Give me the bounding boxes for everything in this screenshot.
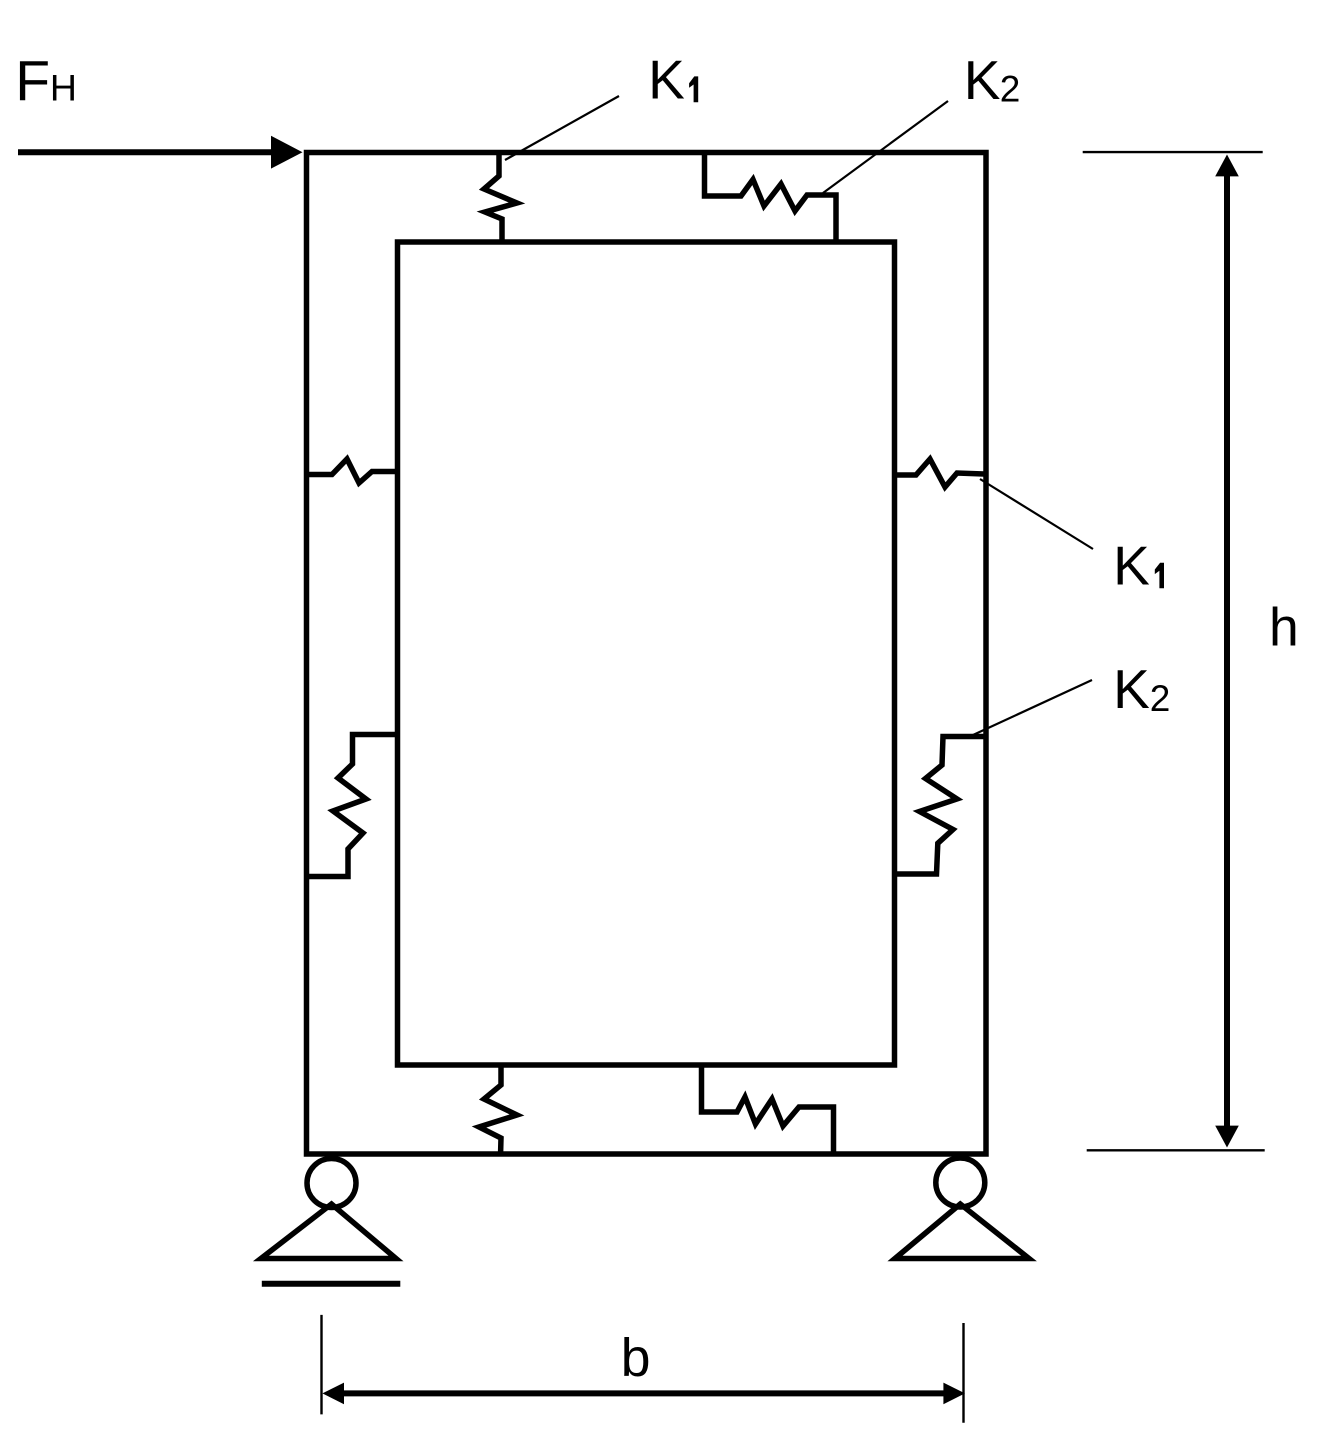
dimension b right tick: [962, 1323, 964, 1423]
force arrow FH: [18, 149, 275, 155]
dimension h bottom extension line: [1087, 1149, 1265, 1151]
pin support left circle: [307, 1159, 356, 1208]
svg-text:2: 2: [1000, 69, 1021, 110]
leader line K2 top: [823, 101, 948, 193]
spring K2 top: [705, 153, 837, 243]
spring K1 bottom: [479, 1064, 517, 1156]
svg-text:h: h: [1269, 599, 1299, 658]
svg-text:K: K: [1113, 658, 1150, 720]
spring right middle K1: [896, 459, 984, 487]
spring K1 top: [484, 153, 517, 243]
dimension b arrow: [335, 1390, 955, 1396]
spring K2 bottom: [702, 1064, 834, 1156]
pin support right circle: [936, 1158, 985, 1207]
dimension b left tick: [320, 1315, 322, 1415]
svg-text:F: F: [15, 50, 50, 114]
spring left lower K2: [307, 735, 396, 877]
inner mass block: [398, 242, 895, 1065]
spring left middle: [308, 459, 396, 483]
leader line K2 right: [973, 680, 1092, 735]
svg-text:2: 2: [1150, 678, 1171, 719]
svg-text:K: K: [964, 49, 1001, 111]
svg-text:H: H: [50, 67, 77, 109]
pin support left triangle: [261, 1204, 396, 1259]
pin support right triangle: [895, 1204, 1029, 1259]
leader line K1 right: [980, 479, 1093, 549]
outer frame: [307, 153, 987, 1155]
dimension h top extension line: [1083, 151, 1263, 153]
dimension h arrow: [1224, 172, 1230, 1130]
spring right lower K2: [896, 737, 984, 875]
svg-text:K: K: [1113, 535, 1150, 597]
ground line under left support: [262, 1281, 401, 1287]
svg-text:b: b: [621, 1329, 651, 1388]
svg-text:K: K: [648, 49, 685, 111]
leader line K1 top: [505, 96, 619, 160]
